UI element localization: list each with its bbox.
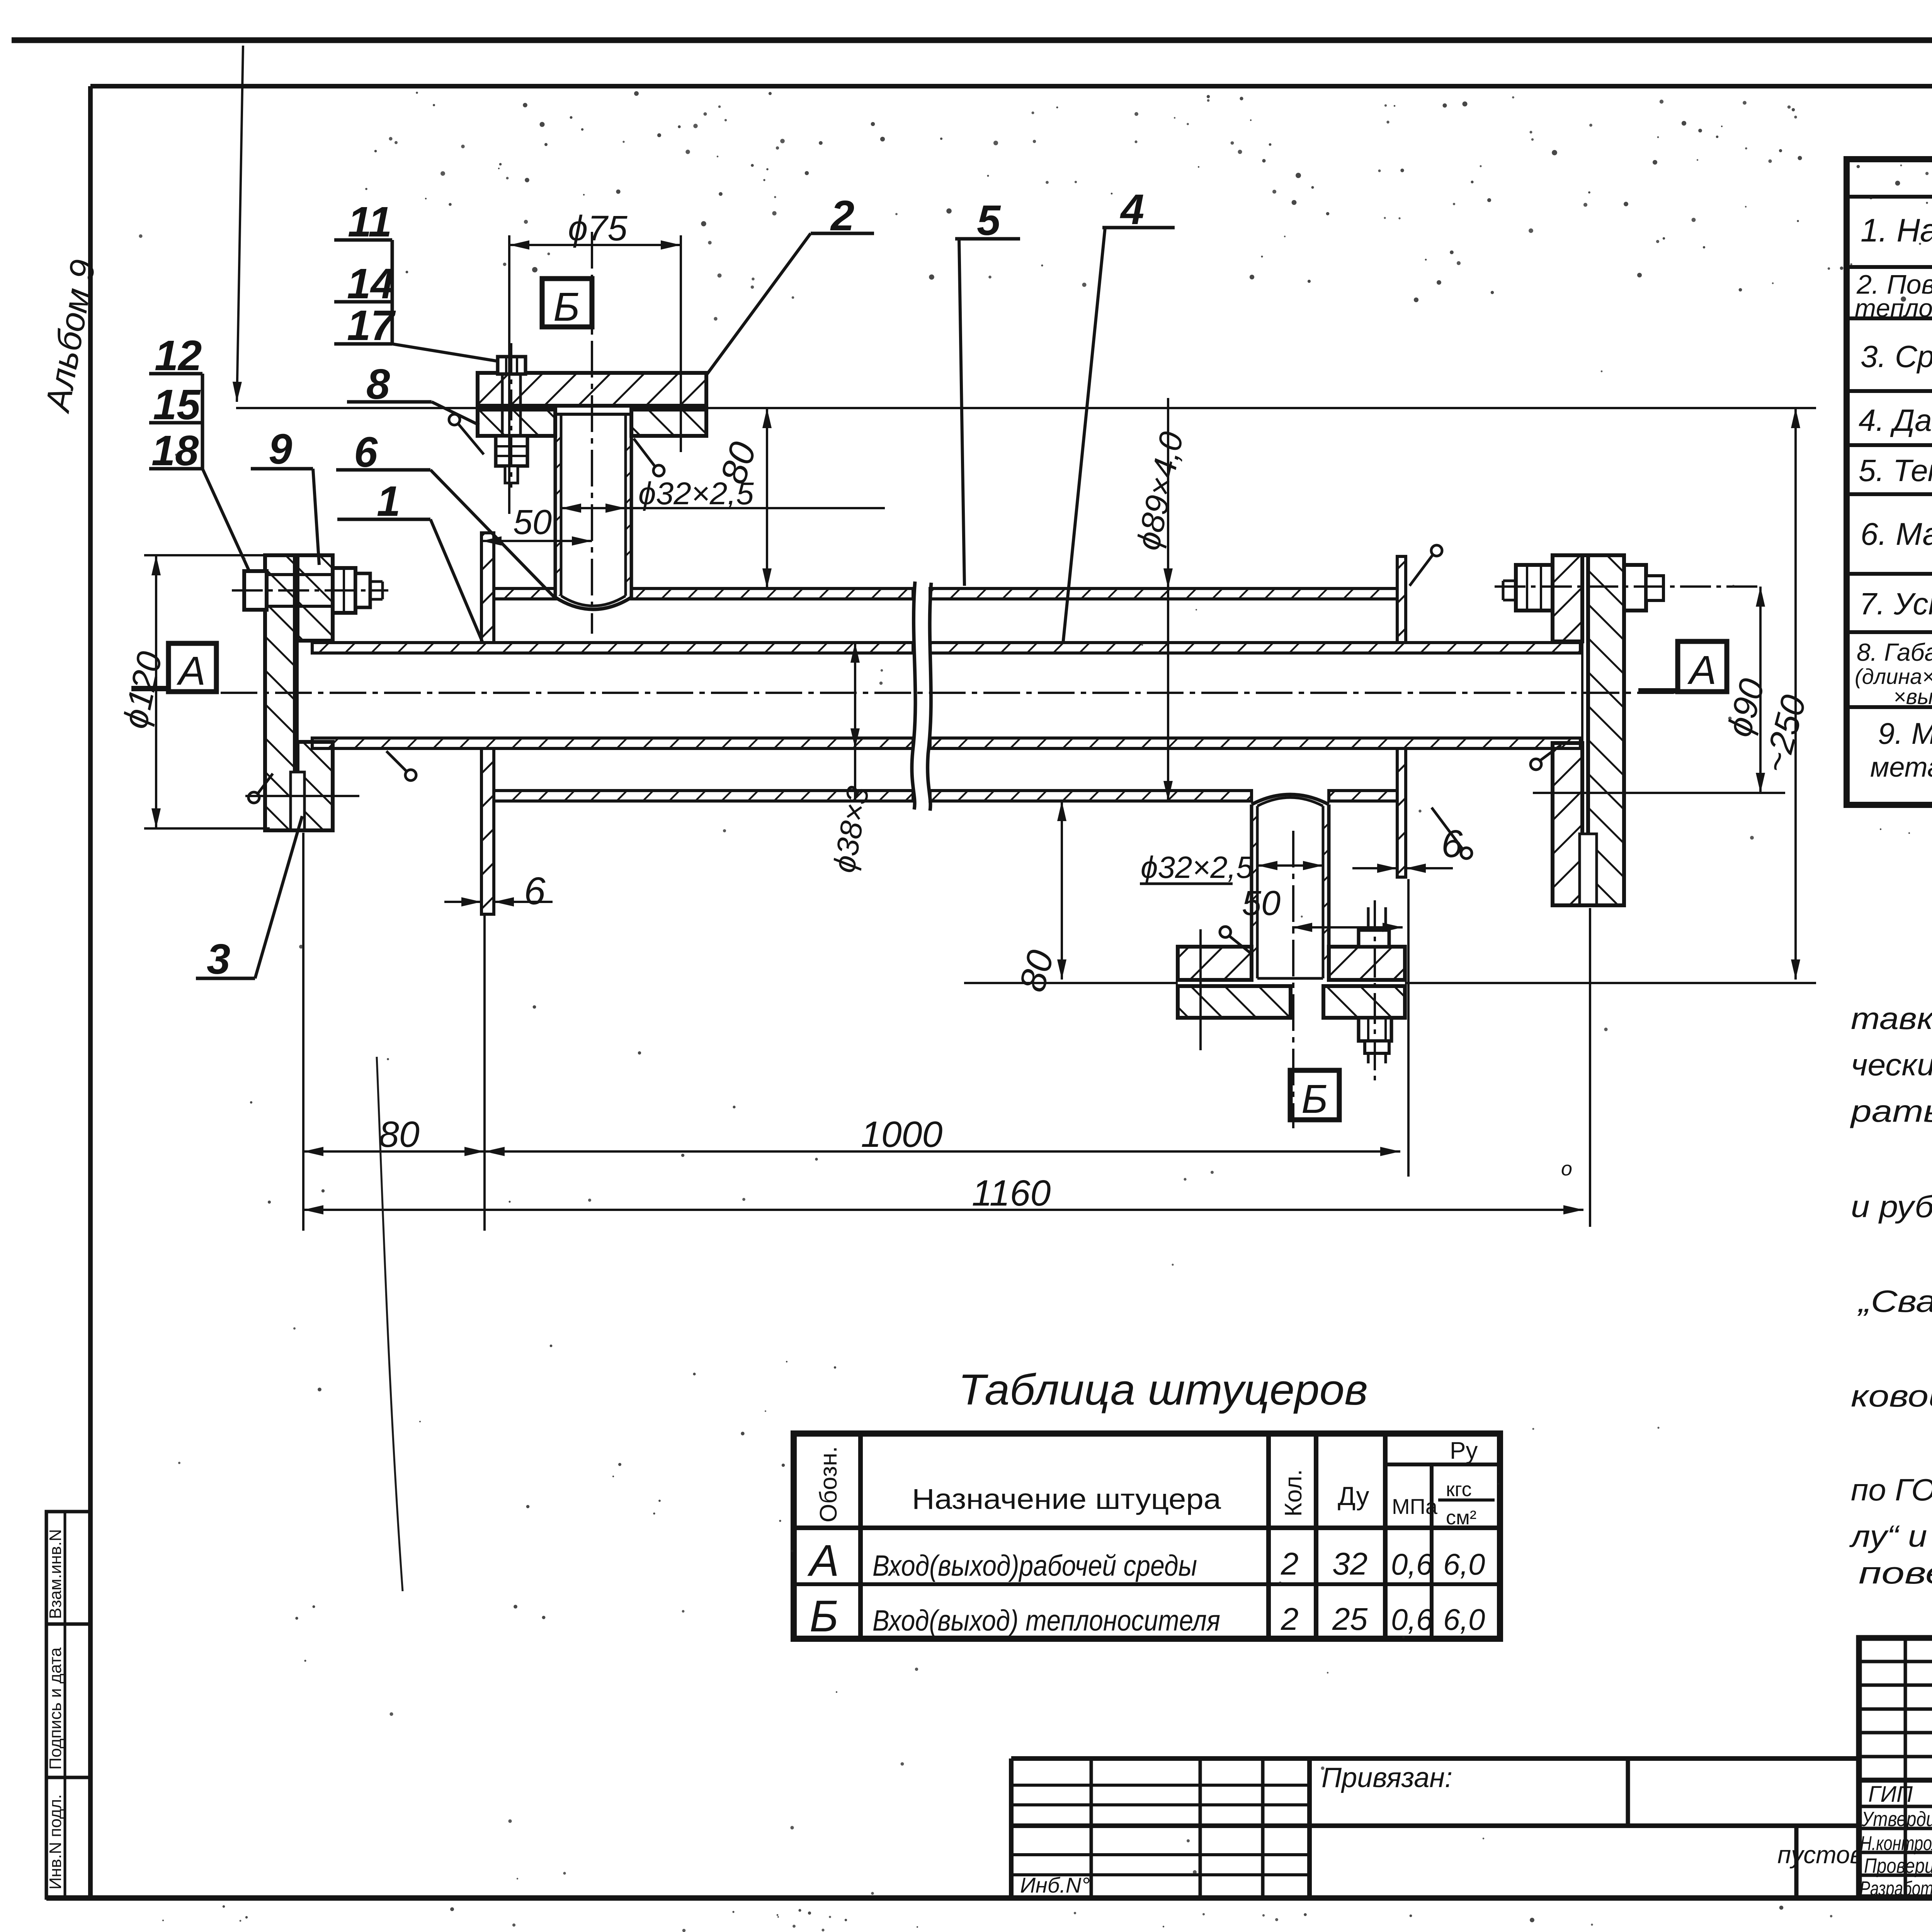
top nozzle pipe wall hatch [555,436,561,596]
phi89 dimension line [1167,398,1169,801]
left jacket level line [245,795,359,797]
bottom nozzle centerline [1292,831,1294,1128]
weld mark at right ring top [1431,545,1442,556]
80-1000 chain dimension [303,1150,485,1153]
svg-text:по ГОСТ 9.032-74„ Покрытия л: по ГОСТ 9.032-74„ Покрытия лакокрасочные… [1851,1473,1932,1507]
phi75 right extension [680,235,682,452]
svg-text:А: А [1687,648,1716,693]
bottom nozzle bolt upper stub [1367,907,1370,930]
svg-text:50: 50 [513,503,552,542]
weld mark at left flange lower [405,770,416,781]
phi32 bottom text underline [1140,883,1233,885]
bottom nozzle pipe top curve inner [1257,798,1323,806]
pipe break line left [912,582,915,810]
svg-text:Таблица штуцеров: Таблица штуцеров [958,1366,1368,1414]
phi32 top dimension tail [626,507,885,509]
pos 8 leader [432,402,479,425]
svg-text:металла, кг: металла, кг [1870,752,1932,783]
phi38 dimension arrow lower [854,692,856,748]
svg-text:ческими требованиями ОСТ26-2: ческими требованиями ОСТ26-291-87 „Сосуд… [1851,1048,1932,1082]
svg-text:Подпись и дата: Подпись и дата [46,1647,65,1770]
bottom nozzle pipe top curve outer [1252,794,1329,804]
svg-text:25: 25 [1332,1602,1368,1637]
top nozzle flange lower bar left [478,410,555,436]
svg-text:Инб.N°: Инб.N° [1020,1873,1090,1897]
svg-text:Разработал: Разработал [1860,1878,1932,1900]
pos 1 leader [430,519,482,641]
extension vertical at left ring [483,916,486,1231]
bottom nozzle bolt thread lines [1367,1053,1370,1063]
phi120 bottom extension [144,827,270,830]
jacket bottom wall band left segment [494,791,913,801]
left flange bottom slot [291,772,304,830]
left jacket ring plate lower part [481,748,494,914]
left counter flange lower [298,742,333,830]
80 top dimension line [766,408,768,588]
extra scan speckle [871,122,875,126]
privyazan strip mid line [1011,1823,1859,1828]
section A box left [168,643,216,692]
inner frame top line [90,84,1932,88]
svg-text:1000: 1000 [861,1114,943,1155]
weld mark at left flange inner [248,792,259,803]
left bolt head [244,571,267,610]
column dividers [858,1434,863,1639]
svg-text:МПа: МПа [1392,1494,1438,1519]
svg-text:6,0: 6,0 [1443,1547,1485,1581]
section A trace left [131,686,168,691]
top reference line right part [706,407,1816,409]
left bolt centerline [232,589,388,592]
svg-text:раты стальные сварные“.: раты стальные сварные“. [1850,1094,1932,1128]
jacket top wall band mid segment [631,588,913,599]
80 bottom dimension line [1061,801,1063,980]
bottom nozzle pipe bottom edge [1257,977,1323,980]
svg-text:6,0: 6,0 [1443,1602,1485,1636]
svg-text:„Сварка в химическом машино: „Сварка в химическом машиностроении“. [1857,1284,1932,1318]
svg-text:7. Установка: 7. Установка [1859,587,1932,621]
pos 3 leader [255,816,302,978]
inner pipe bottom wall band left segment [312,738,913,748]
pos 9 leader [313,469,319,565]
svg-text:Ру: Ру [1450,1437,1478,1464]
bottom nozzle left bolt axis [1199,929,1202,1050]
pipe break line right [928,583,931,811]
scan speckle noise [1384,104,1387,107]
left grid horizontals [1859,1660,1932,1663]
inner frame left vertical [88,86,93,1898]
title block outer border [1859,1638,1932,1897]
svg-text:0,6: 0,6 [1391,1547,1433,1581]
svg-text:Вход(выход)рабочей среды: Вход(выход)рабочей среды [872,1549,1197,1582]
top nozzle pipe bottom curve outer [555,597,631,609]
inner frame bottom line [46,1895,1932,1901]
jacket bottom wall band mid segment [930,791,1252,801]
weld mark at right flange [1531,759,1541,770]
svg-text:2: 2 [1281,1602,1299,1637]
main centerline [166,692,1677,694]
inner pipe bottom wall band right segment [930,738,1580,748]
left flange gasket gap lines [294,555,296,830]
right bolt head washer [1624,565,1646,611]
svg-text:тавка теплообменника в соот: тавка теплообменника в соответствии с те… [1851,1001,1932,1036]
bottom nozzle bolt centerline [1374,900,1376,1082]
left flange disc [265,555,295,830]
right bolt centerline [1495,585,1760,588]
svg-text:о: о [1561,1158,1572,1180]
weld mark at right ring bottom [1461,848,1472,859]
svg-text:и рубашку давлением Р=0,375: и рубашку давлением Р=0,375МПа (3,75кгс/… [1851,1189,1932,1224]
extension vertical at left flange [302,833,304,1231]
left bolt thread stub [370,580,383,583]
bottom nozzle bolt lower block [1365,1041,1389,1053]
left bolt washer [355,573,370,607]
bottom nozzle bolt nut [1359,1018,1391,1041]
scan crease line [377,1057,403,1591]
svg-text:Инв.N подл.: Инв.N подл. [46,1794,65,1889]
left counter flange upper [298,555,333,641]
right flange top face line [1553,553,1624,557]
privyazan strip dividers [1626,1759,1630,1826]
svg-text:50: 50 [1242,884,1281,923]
250 dimension line [1794,408,1797,980]
weld mark at top nozzle right [653,465,664,476]
svg-text:80: 80 [379,1114,420,1155]
extension vertical at right flange [1589,908,1591,1227]
right flange bottom slot [1580,834,1597,905]
left stamp boxes column [46,1512,90,1624]
pos 5 leader [959,239,964,586]
phi75 dimension line [509,244,681,246]
svg-text:5. Температура: 5. Температура [1859,453,1932,488]
svg-text:1160: 1160 [972,1173,1051,1214]
sheet top border line [12,37,1932,43]
top nozzle pipe top edge [555,413,631,416]
Ru split line [1385,1463,1500,1466]
pos 12-15-18 connector [201,374,204,469]
svg-text:ɸ75: ɸ75 [568,209,628,248]
top left stray extension line with arrow [237,46,243,402]
svg-text:32: 32 [1332,1546,1367,1582]
pos 11-14-17 connector [391,240,394,344]
svg-text:6: 6 [524,869,546,913]
svg-text:Привязан:: Привязан: [1321,1762,1452,1793]
jacket top wall band right segment [930,588,1397,599]
phi38 dimension line upper [854,643,856,801]
weld mark at top nozzle left [449,414,460,425]
phi120 dimension line [155,555,157,828]
bottom nozzle pipe right wall lines [1322,806,1325,978]
top nozzle bolt shaft lines [501,374,504,436]
weld mark at bottom nozzle [1220,927,1231,937]
left bolt nut [333,568,355,613]
section A trace right [1638,688,1678,694]
50 top dimension line [481,540,592,542]
50 bottom dimension line [1292,926,1403,929]
svg-text:Н.контроль: Н.контроль [1860,1832,1932,1855]
right counter flange lower [1553,743,1582,905]
svg-text:ковой дефектоскопией или пр: ковой дефектоскопией или просвечиванием. [1851,1379,1932,1413]
right jacket ring plate lower part [1397,748,1406,877]
stamp boxes inner divider [64,1512,66,1898]
bottom nozzle flange upper bar right [1329,947,1405,980]
svg-text:4. Давление: 4. Давление [1859,403,1932,437]
svg-text:кгс: кгс [1446,1478,1472,1501]
phi75 left extension [508,235,510,514]
svg-text:ГИП: ГИП [1868,1782,1913,1807]
svg-text:Проверил: Проверил [1864,1854,1932,1878]
bottom nozzle flange lower bar left [1178,986,1291,1018]
svg-text:8. Габариты, мм: 8. Габариты, мм [1857,638,1932,666]
right flange bottom face line [1553,903,1624,907]
privyazan strip left grid [1009,1759,1014,1898]
privyazan strip top line [1011,1756,1859,1761]
pos 6 leader [430,470,555,598]
svg-text:А: А [176,648,206,694]
pos 17 leader to nozzle bolt [392,344,498,361]
svg-text:Вход(выход) теплоносителя: Вход(выход) теплоносителя [872,1604,1220,1637]
top nozzle pipe right wall lines [624,414,627,596]
svg-text:Взам.инв.N: Взам.инв.N [46,1529,65,1619]
B box top [542,279,592,327]
top nozzle bolt centerline [510,343,512,488]
top nozzle pipe bottom curve inner [561,596,626,606]
svg-text:А: А [807,1536,839,1585]
svg-text:Обозн.: Обозн. [815,1446,842,1522]
bottom reference line left part [964,982,1178,984]
phi120 top extension [144,554,265,556]
left grid verticals [1904,1638,1907,1897]
right bolt nut inner lines [1526,565,1528,611]
svg-text:3: 3 [207,935,230,983]
right jacket ring plate upper part [1397,556,1406,643]
bottom nozzle flange upper bar left [1178,947,1252,980]
top nozzle flange upper bar [478,373,706,406]
right counter flange upper [1553,555,1582,641]
phi32 top dimension arrows [561,507,626,509]
right flange gasket gap lines [1581,555,1583,905]
right bolt thread stub [1503,580,1516,582]
svg-text:Б: Б [810,1592,838,1641]
top nozzle flange lower bar right [631,410,706,436]
phi90 dimension line [1759,587,1762,793]
1160 dimension line [303,1209,1583,1211]
right bolt end [1646,576,1663,600]
top nozzle pipe (item 6) left wall lines [554,414,557,597]
bottom nozzle pipe wall hatch [1252,815,1257,970]
row A bottom line [794,1582,1500,1586]
bottom nozzle flange lower bar right [1323,986,1405,1018]
bottom nozzle pipe left wall lines [1250,804,1253,980]
svg-text:Кол.: Кол. [1280,1469,1307,1517]
bottom reference line right part [1405,982,1816,984]
jacket bottom wall band right segment [1329,791,1397,801]
left bolt shank lines [267,573,333,576]
svg-text:6. Материал: 6. Материал [1861,517,1932,552]
jacket (rubashka items 4,5) top wall band left of nozzle [494,588,555,599]
svg-text:0,6: 0,6 [1391,1602,1433,1636]
svg-text:9. Масса: 9. Масса [1878,716,1932,750]
left jacket ring plate upper part [481,533,494,643]
nozzle table outer border [794,1434,1500,1639]
row lines [1847,195,1932,199]
svg-text:Утвердил: Утвердил [1861,1808,1932,1831]
svg-text:Б: Б [1301,1077,1328,1122]
inner pipe (korpus item 1) top wall band left segment [312,643,913,653]
pos 2 leader [707,233,811,374]
svg-text:см²: см² [1446,1507,1476,1529]
right bolt nut [1516,565,1553,611]
top nozzle bolt head [498,357,526,374]
top nozzle bolt nut [496,436,527,466]
svg-text:9: 9 [269,425,292,473]
top nozzle bolt thread stub [505,466,518,483]
section A box right [1678,641,1727,692]
svg-text:ɸ32×2,5: ɸ32×2,5 [1141,850,1253,884]
characteristics table outer border [1847,159,1932,805]
svg-text:теплообмена: теплообмена [1855,294,1932,322]
bottom nozzle bolt upper block [1359,930,1389,947]
svg-text:пустов: пустов [1777,1841,1863,1869]
header bottom line [794,1526,1500,1530]
svg-text:Б: Б [553,284,580,330]
kgs/sm2 fraction line [1438,1498,1495,1502]
inner pipe top wall band right segment [930,643,1580,653]
left flange bottom face line [265,828,333,832]
phi90 lower extension [1533,792,1785,794]
6 right thickness arrows [1352,867,1397,869]
top nozzle centerline [591,232,593,634]
pos 4 leader [1063,228,1105,644]
phi89 dimension arrow upper [1167,483,1169,588]
svg-text:×высота): ×высота) [1893,684,1932,709]
svg-text:3. Среда: 3. Среда [1861,339,1932,374]
top reference line left part [236,407,478,409]
B box bottom [1290,1070,1339,1120]
svg-text:1. Назначение: 1. Назначение [1861,212,1932,248]
right flange disc [1588,555,1624,905]
svg-text:2: 2 [1281,1546,1299,1582]
left flange top face line [265,553,333,557]
svg-text:Назначение штуцера: Назначение штуцера [912,1483,1221,1515]
6 left thickness arrows [444,901,481,903]
extension vertical at right ring [1407,879,1410,1177]
phi32 bottom dimension arrows [1257,864,1323,867]
svg-text:лу“ и ОМТРМ 7312-010-78 „Ок: лу“ и ОМТРМ 7312-010-78 „Окраска металли… [1849,1519,1932,1553]
svg-text:поверхностей“.: поверхностей“. [1859,1556,1932,1590]
svg-text:Ду: Ду [1338,1481,1369,1511]
pos 18 leader to flange bolt [202,469,249,571]
